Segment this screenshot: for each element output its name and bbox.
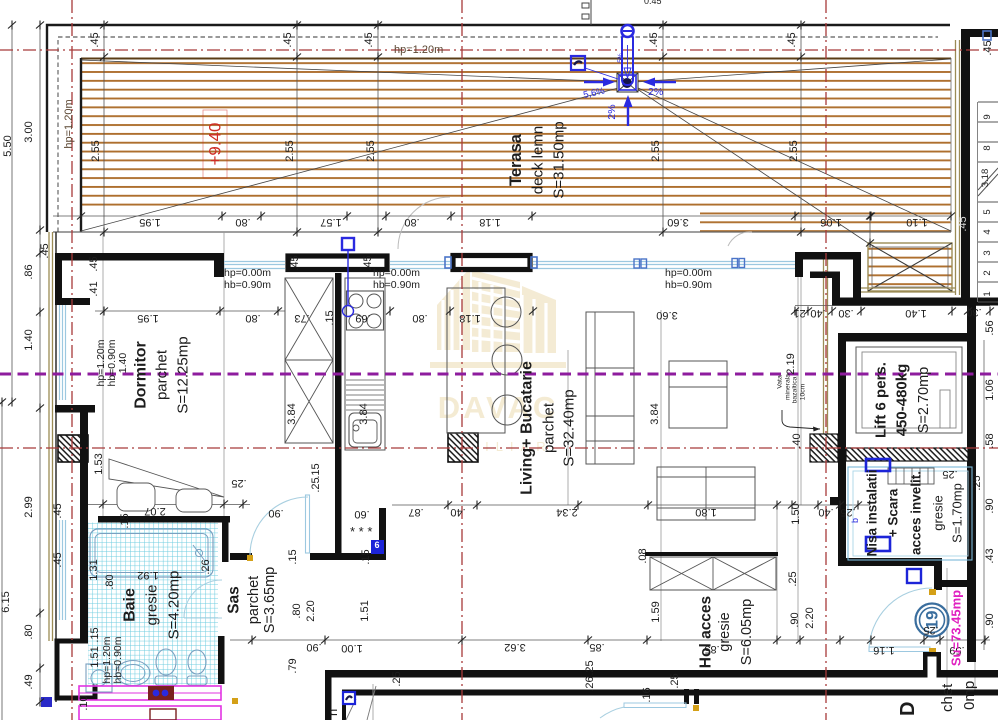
svg-text:.56: .56 — [984, 320, 996, 335]
window3 blue divider pair 2 — [732, 259, 745, 268]
north wall east segment — [795, 252, 861, 260]
stair X-box diagonals — [868, 243, 952, 291]
dim ticks row y640 — [248, 636, 256, 645]
svg-text:2.19: 2.19 — [785, 353, 797, 374]
svg-text:Sas: Sas — [226, 586, 243, 614]
kitchen counter — [345, 278, 385, 450]
svg-text:.86: .86 — [23, 264, 35, 279]
deck 2.55 labels — [90, 140, 800, 161]
kitchen-sas wall — [335, 273, 342, 560]
svg-text:.25: .25 — [923, 624, 938, 636]
svg-text:minerala: minerala — [785, 374, 792, 400]
svg-text:2.99: 2.99 — [23, 496, 35, 517]
tan siding west of lift — [823, 257, 825, 436]
NE corner vertical wall — [853, 252, 861, 302]
stair X-box tan border — [868, 243, 952, 291]
svg-text:3.00: 3.00 — [23, 121, 35, 142]
tread edge vertical line — [977, 102, 979, 302]
svg-text:0.45: 0.45 — [644, 0, 662, 6]
dim row y311 labels — [137, 306, 981, 326]
svg-text:1.57: 1.57 — [320, 216, 341, 228]
blue bracket top right — [983, 31, 991, 40]
svg-text:6.15: 6.15 — [0, 591, 12, 612]
svg-text:parchet: parchet — [541, 402, 558, 453]
baie east wall upper — [222, 516, 229, 562]
drain blob — [622, 78, 632, 88]
svg-text:hp=0.00m: hp=0.00m — [373, 267, 420, 279]
sink baie — [116, 661, 150, 686]
north wall east pier — [795, 252, 803, 277]
window2 glazing — [390, 262, 450, 269]
svg-text:.73: .73 — [294, 312, 309, 324]
svg-text:.10: .10 — [78, 695, 90, 710]
thin door diagonals below wall B — [346, 699, 356, 720]
tv unit top line — [645, 552, 778, 556]
dimension line y311 dormitor — [95, 310, 285, 312]
svg-text:.45: .45 — [52, 503, 64, 518]
svg-text:.30: .30 — [966, 306, 981, 318]
svg-text:2.55: 2.55 — [284, 140, 296, 161]
svg-text:1.95: 1.95 — [137, 312, 158, 324]
drain pipe top circle — [622, 25, 634, 37]
svg-text:3.84: 3.84 — [649, 403, 661, 424]
toilet — [156, 649, 176, 675]
svg-text:1.31: 1.31 — [88, 559, 100, 580]
svg-text:.80: .80 — [23, 624, 35, 639]
deck top edge — [81, 58, 951, 60]
right edge dims — [971, 320, 996, 628]
radiator 2 — [79, 706, 221, 720]
svg-text:Hol acces: Hol acces — [698, 596, 715, 668]
sas south wall piece — [310, 553, 341, 560]
construction line x568 — [567, 350, 569, 505]
svg-text:2.55: 2.55 — [788, 140, 800, 161]
svg-text:hp=1.20m: hp=1.20m — [394, 44, 443, 56]
sofa C horizontal — [657, 467, 755, 520]
svg-text:.45: .45 — [648, 32, 660, 47]
svg-text:.69: .69 — [355, 312, 370, 324]
sofa A vertical — [586, 312, 634, 464]
svg-text:10cm: 10cm — [800, 383, 807, 400]
baie north wall — [98, 516, 230, 523]
dim ticks left column — [36, 21, 44, 30]
bottom door jamb dot — [693, 705, 699, 711]
hol blue drain marker — [343, 692, 355, 704]
tan siding left edge of plan — [48, 232, 50, 641]
svg-text:1.59: 1.59 — [650, 601, 662, 622]
terrace door swing arc — [398, 197, 450, 249]
svg-text:1.06: 1.06 — [984, 379, 996, 400]
red axis horizontal y448 — [0, 447, 998, 449]
svg-text:.58: .58 — [984, 433, 996, 448]
slope arrow from bottom — [627, 102, 629, 126]
nisa west wall — [838, 448, 846, 566]
radiator thermostat box — [148, 686, 174, 700]
dining chairs — [491, 297, 521, 327]
svg-text:.85: .85 — [589, 641, 604, 653]
svg-text:.80: .80 — [235, 216, 250, 228]
svg-text:5.50: 5.50 — [2, 135, 14, 156]
bottom wall B — [342, 690, 998, 696]
svg-text:.16: .16 — [641, 687, 653, 702]
svg-text:2.20: 2.20 — [804, 607, 816, 628]
svg-text:Su=73.45mp: Su=73.45mp — [949, 590, 964, 666]
svg-text:.60: .60 — [354, 508, 369, 520]
baie east wall lower — [218, 636, 225, 684]
sas closet blue box — [371, 540, 384, 554]
svg-text:.45: .45 — [39, 243, 51, 258]
svg-text:3: 3 — [982, 250, 993, 255]
svg-text:bazaltica: bazaltica — [792, 376, 799, 403]
nisa door arc — [869, 588, 932, 651]
svg-text:.26: .26 — [584, 676, 596, 691]
svg-text:4: 4 — [982, 229, 993, 234]
tan siding above stair bottom wall — [861, 287, 955, 289]
kitchen tall cabinet with X — [285, 278, 333, 443]
dormitor dims — [93, 453, 322, 528]
svg-text:D: D — [897, 702, 919, 716]
svg-text:n: n — [325, 709, 340, 716]
terrace drain square — [617, 73, 638, 92]
svg-text:.25: .25 — [310, 477, 322, 492]
exterior stair treads right edge — [978, 102, 998, 302]
svg-text:.80: .80 — [291, 603, 303, 618]
svg-text:.41: .41 — [88, 281, 100, 296]
window box B blue end brackets — [445, 257, 537, 268]
bottom wall A — [325, 670, 998, 678]
deck boards right extension — [700, 211, 951, 232]
svg-text:.45: .45 — [88, 256, 100, 271]
svg-text:Lift 6 pers.: Lift 6 pers. — [873, 362, 890, 438]
left plan edge dark line — [55, 232, 57, 702]
construction lines x798 x801 — [797, 262, 799, 641]
svg-text:3.60: 3.60 — [667, 216, 688, 228]
right exterior wall top stub — [961, 29, 998, 37]
svg-text:parchet: parchet — [154, 349, 171, 400]
svg-text:5%: 5% — [617, 53, 624, 63]
top dim .45 labels — [89, 32, 994, 55]
dimension line y216 deck bottom — [53, 215, 951, 217]
svg-text:2.55: 2.55 — [90, 140, 102, 161]
hatched column living — [448, 433, 478, 462]
svg-text:0mp: 0mp — [961, 681, 978, 710]
deck right edge — [950, 58, 952, 232]
dim ticks deck verticals — [100, 21, 108, 30]
insulation hatched block west of lift — [810, 434, 838, 462]
west wall lower box — [57, 641, 95, 698]
red axis vertical x826 — [825, 0, 827, 720]
svg-text:.25: .25 — [787, 571, 799, 586]
svg-text:chet: chet — [939, 683, 956, 712]
drain pipe vertical — [622, 33, 633, 85]
svg-text:S=4.20mp: S=4.20mp — [166, 571, 183, 640]
dormitor window west glazing — [60, 305, 66, 400]
vata leader line — [782, 410, 820, 429]
svg-text:.90: .90 — [306, 641, 321, 653]
svg-text:2: 2 — [982, 270, 993, 275]
nisa ladder — [888, 468, 934, 484]
svg-text:Living+ Bucatarie: Living+ Bucatarie — [519, 361, 536, 495]
chimney mark at top edge — [582, 0, 591, 25]
svg-text:1.18: 1.18 — [459, 312, 480, 324]
dim ticks row y505 — [444, 501, 452, 510]
svg-text:.45: .45 — [362, 255, 374, 270]
svg-text:Terasa: Terasa — [507, 133, 525, 186]
bidet — [188, 650, 206, 674]
hol west wall vertical — [325, 670, 332, 720]
svg-text:Nisa instalatii: Nisa instalatii — [865, 469, 880, 556]
north wall west segment — [55, 253, 222, 261]
svg-text:2.20: 2.20 — [305, 600, 317, 621]
svg-text:S=6.05mp: S=6.05mp — [739, 599, 755, 666]
magenta section line y374 — [0, 373, 998, 376]
svg-text:Dormitor: Dormitor — [133, 341, 150, 409]
svg-text:.45: .45 — [52, 552, 64, 567]
west window labels — [95, 339, 129, 386]
svg-text:.30: .30 — [838, 307, 853, 319]
west wall jog stub — [62, 298, 90, 305]
hp hb window labels — [224, 267, 712, 291]
left dim line xC — [1, 402, 3, 720]
nisa blue box marker — [907, 569, 921, 583]
living dims — [408, 353, 855, 628]
svg-text:9: 9 — [982, 114, 993, 119]
svg-text:* * *: * * * — [350, 524, 372, 539]
slope line to SE stair corner — [634, 87, 868, 243]
lift car inner rect — [856, 347, 962, 433]
bottom wall B left jog — [342, 695, 346, 720]
svg-text:.40: .40 — [450, 506, 465, 518]
svg-text:S=12.25mp: S=12.25mp — [175, 336, 192, 413]
left dim line xB — [11, 25, 13, 402]
svg-text:.25: .25 — [391, 671, 403, 686]
slope line to SE deck corner — [636, 87, 951, 231]
kitchen window pipe marker — [342, 238, 354, 250]
construction line x661 — [660, 310, 662, 641]
svg-text:gresie: gresie — [931, 495, 946, 530]
svg-text:.45: .45 — [363, 32, 375, 47]
svg-text:1.40: 1.40 — [117, 353, 129, 374]
svg-text:1.40: 1.40 — [23, 329, 35, 350]
svg-text:2.55: 2.55 — [365, 140, 377, 161]
svg-text:hp=0.00m: hp=0.00m — [224, 267, 271, 279]
svg-text:450-480kg: 450-480kg — [894, 364, 911, 437]
svg-text:.25: .25 — [669, 673, 681, 688]
svg-text:1.16: 1.16 — [873, 644, 894, 656]
svg-text:1.92: 1.92 — [137, 569, 158, 581]
svg-text:3.62: 3.62 — [504, 641, 525, 653]
tan siding right of deck — [955, 40, 957, 295]
bottom wall B door stubs — [684, 689, 689, 704]
svg-text:1.00: 1.00 — [341, 642, 362, 654]
baie dims — [52, 503, 212, 710]
slope arrow from left — [584, 81, 608, 83]
svg-text:1.51: 1.51 — [359, 600, 371, 621]
radiator 1 — [79, 686, 221, 700]
svg-text:.80: .80 — [104, 574, 116, 589]
svg-text:.45: .45 — [289, 255, 301, 270]
lift bottom hatched wall — [846, 448, 968, 461]
svg-text:hp=0.00m: hp=0.00m — [665, 267, 712, 279]
svg-text:hb=0.90m: hb=0.90m — [112, 636, 124, 683]
window1 glazing dormitor — [224, 262, 285, 269]
radiator 2 inner — [150, 709, 176, 720]
nisa step horizontal — [940, 580, 976, 587]
dim ticks row y216 — [77, 212, 85, 221]
NE jog vertical — [832, 272, 840, 305]
red axis horizontal y50 — [0, 49, 998, 51]
slope line to NW corner — [81, 60, 620, 82]
svg-text:.85: .85 — [704, 643, 719, 655]
lift west wall — [838, 333, 846, 448]
svg-text:.15: .15 — [360, 549, 372, 564]
svg-text:hb=0.90m: hb=0.90m — [665, 279, 712, 291]
parapet inner dashed line — [58, 37, 938, 232]
terrace outer parapet wall — [47, 25, 950, 232]
svg-text:1.50: 1.50 — [790, 503, 802, 524]
svg-text:.40: .40 — [810, 307, 825, 319]
svg-text:1: 1 — [982, 291, 993, 296]
svg-text:3.60: 3.60 — [656, 309, 677, 321]
svg-text:.15: .15 — [310, 463, 322, 478]
hol west wall stub — [830, 497, 840, 505]
hol dims — [306, 468, 964, 703]
nisa bottom wall step — [934, 558, 942, 590]
dimension line y305 terrace SE — [795, 305, 990, 307]
red axis vertical x462 — [461, 0, 463, 720]
svg-text:.43: .43 — [984, 548, 996, 563]
bottom door arc — [600, 707, 624, 718]
bottom door leaf — [624, 703, 686, 708]
bathtub — [90, 529, 213, 577]
svg-text:.90: .90 — [268, 507, 283, 519]
terrace deck boards — [81, 58, 951, 211]
svg-text:.45: .45 — [282, 32, 294, 47]
nisa door jamb dots — [929, 589, 936, 595]
nisa bottom wall — [838, 558, 942, 566]
svg-text:.08: .08 — [637, 548, 649, 563]
svg-text:parchet: parchet — [246, 576, 262, 624]
svg-text:.15: .15 — [324, 310, 336, 325]
svg-text:.21: .21 — [793, 307, 808, 319]
window3 glazing long — [533, 262, 795, 269]
svg-text:S=32.40mp: S=32.40mp — [561, 389, 578, 466]
construction line x947 — [946, 568, 948, 690]
construction line x777 — [776, 505, 778, 641]
dormitor slope wedge — [109, 459, 224, 497]
wall piece dims near north wall — [88, 255, 374, 296]
sas door stub west — [230, 553, 252, 560]
deck left edge — [80, 58, 82, 232]
svg-text:8: 8 — [982, 145, 993, 150]
stair step numbers — [980, 114, 993, 296]
sas closet bottom wall — [341, 553, 386, 560]
right exterior wall — [961, 29, 970, 302]
svg-text:3.18: 3.18 — [980, 169, 991, 188]
svg-text:.80: .80 — [245, 312, 260, 324]
right exterior wall mid — [967, 302, 976, 662]
svg-text:.45: .45 — [89, 32, 101, 47]
bottom wall A door bump — [923, 652, 941, 672]
dormitor bench 2 — [176, 489, 212, 512]
drain pipe inner arrow — [627, 45, 629, 72]
svg-text:.15: .15 — [89, 627, 101, 642]
sas door jamb dot — [247, 555, 253, 561]
svg-text:2.07: 2.07 — [144, 505, 165, 517]
terrace door swing arc right — [728, 232, 752, 246]
svg-text:2.55: 2.55 — [650, 140, 662, 161]
hatched column west — [58, 435, 88, 462]
baie window west glazing — [60, 520, 66, 620]
svg-text:+ Scara: + Scara — [886, 488, 901, 537]
lift top wall — [840, 333, 975, 342]
svg-text:.25: .25 — [840, 506, 855, 518]
dimension line y504 dormitor — [85, 504, 250, 506]
leader line from marker to drain — [585, 68, 618, 79]
svg-text:.45: .45 — [786, 32, 798, 47]
south terrace wall under stairs — [832, 298, 998, 306]
kitchen sink — [349, 413, 381, 447]
dim row y216 labels — [139, 216, 969, 232]
vata minerala note — [777, 374, 807, 404]
svg-text:S=1.70mp: S=1.70mp — [950, 483, 965, 543]
west wall upper pier — [55, 253, 62, 305]
svg-text:.90: .90 — [984, 498, 996, 513]
dormitor bench 1 — [117, 483, 155, 511]
svg-text:acces invelit.: acces invelit. — [909, 471, 924, 555]
svg-text:Baie: Baie — [122, 588, 139, 622]
window3 blue divider pair 1 — [634, 259, 647, 268]
construction line x975 — [974, 585, 976, 690]
washing machine — [86, 664, 112, 692]
north wall pier at window1 — [214, 253, 224, 277]
svg-text:2%: 2% — [648, 86, 663, 98]
svg-text:6: 6 — [374, 540, 379, 550]
svg-text:.45: .45 — [957, 216, 969, 231]
deck bottom edge — [53, 231, 951, 233]
dimension line y640 bottom — [230, 639, 990, 641]
svg-text:.26: .26 — [200, 559, 212, 574]
svg-text:1.40: 1.40 — [905, 307, 926, 319]
sas dims — [268, 507, 596, 692]
svg-text:.25: .25 — [971, 475, 983, 490]
svg-text:.90: .90 — [984, 613, 996, 628]
svg-text:.87: .87 — [408, 506, 423, 518]
+9.40 level mark — [203, 110, 227, 178]
svg-text:2%: 2% — [606, 104, 618, 119]
svg-text:1.18: 1.18 — [479, 216, 500, 228]
dim line x984 right edge — [983, 340, 985, 650]
baie tile floor — [88, 523, 218, 685]
svg-text:.25: .25 — [231, 477, 246, 489]
dimension line y505 living — [392, 504, 870, 506]
svg-text:1.53: 1.53 — [93, 453, 105, 474]
svg-text:1.06: 1.06 — [820, 216, 841, 228]
left column dims — [0, 121, 51, 689]
svg-text:.25: .25 — [584, 660, 596, 675]
svg-text:S=2.70mp: S=2.70mp — [916, 367, 932, 434]
svg-text:.15: .15 — [119, 513, 131, 528]
construction line x103 — [102, 232, 104, 516]
sas closet east wall — [379, 508, 386, 560]
svg-text:.49: .49 — [23, 674, 35, 689]
svg-text:1.80: 1.80 — [695, 506, 716, 518]
stair break line — [978, 168, 998, 196]
svg-text:.80: .80 — [412, 312, 427, 324]
svg-text:deck lemn: deck lemn — [530, 126, 547, 194]
west wall mid rect above column — [55, 405, 95, 413]
dim line x870 stair — [869, 216, 871, 243]
